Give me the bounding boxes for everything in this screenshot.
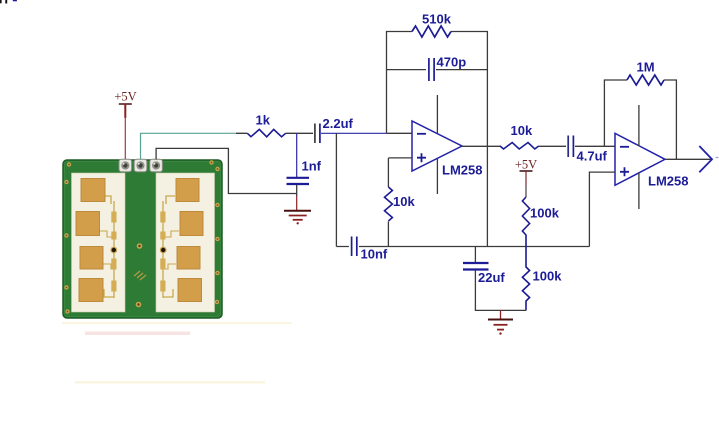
svg-text:+5V: +5V: [114, 90, 136, 104]
right antenna panel: [156, 173, 215, 312]
border vias: [64, 160, 219, 313]
via left panel: [110, 247, 117, 254]
pin 3: [150, 159, 163, 172]
antenna patch A3: [80, 247, 103, 270]
wire U1 + input: [388, 158, 412, 187]
svg-text:+5V: +5V: [515, 158, 537, 172]
svg-text:100k: 100k: [530, 206, 560, 221]
resistor R1 1k: [236, 113, 296, 137]
center strip marking: [134, 271, 146, 280]
resistor R5 1M: [627, 60, 664, 86]
svg-text:100k: 100k: [533, 269, 563, 284]
U2 V+ pin: [638, 105, 640, 146]
antenna patch A4: [79, 279, 103, 302]
antenna patch A6: [180, 212, 203, 236]
antenna patch A1: [81, 179, 105, 202]
antenna patch A7: [177, 247, 200, 270]
op-amp U2 LM258: [615, 105, 688, 209]
capacitor C3 470p: [429, 55, 466, 82]
+5V supply V2: [515, 158, 537, 198]
feedback loop wires U2: [604, 80, 676, 159]
svg-text:1nf: 1nf: [302, 159, 322, 174]
svg-text:4.7uf: 4.7uf: [577, 149, 608, 164]
via right panel: [160, 247, 167, 254]
svg-text:22uf: 22uf: [478, 270, 505, 285]
wire U1 output: [462, 145, 501, 147]
wire C1 to U1 inverting input: [321, 132, 387, 134]
capacitor C4 10nf: [352, 237, 388, 262]
right feed trace: [163, 196, 175, 298]
svg-text:510k: 510k: [422, 12, 452, 27]
capacitor C2 1nf: [287, 159, 322, 185]
wire U2 output: [665, 158, 711, 160]
op-amp U1 LM258: [412, 95, 482, 194]
svg-text:10k: 10k: [393, 194, 415, 209]
svg-text:10k: 10k: [511, 123, 533, 138]
resistor R4 10k: [500, 123, 566, 149]
ground G1: [284, 211, 311, 225]
antenna patch A8: [178, 279, 202, 302]
faint smudges below module: [62, 322, 292, 384]
wire R1/C1 node down to C2: [296, 133, 298, 177]
output arrow: [699, 146, 718, 172]
pin 2: [134, 159, 147, 172]
wire C5 to U2 inverting input: [575, 145, 615, 147]
antenna patch A2: [76, 212, 100, 236]
svg-text:LM258: LM258: [442, 163, 482, 178]
left feed trace: [103, 196, 114, 298]
wire U2 + input from bus: [589, 172, 615, 246]
wire rail to ground G2: [500, 310, 502, 319]
resistor R3 10k: [385, 187, 416, 247]
resistor R6 100k: [522, 197, 559, 247]
wire C2 to ground G1: [296, 185, 298, 196]
svg-text:LM258: LM258: [648, 174, 688, 189]
svg-text:1M: 1M: [637, 60, 655, 75]
ground G2: [488, 320, 513, 335]
wire bus to C6: [474, 247, 476, 264]
svg-text:1k: 1k: [256, 113, 271, 128]
wire +5V to pin1: [124, 117, 126, 159]
bus wire bottom: [336, 246, 589, 248]
U2 V- pin: [638, 173, 640, 209]
svg-text:470p: 470p: [437, 55, 467, 70]
svg-text:2.2uf: 2.2uf: [323, 116, 354, 131]
resistor R2 510k: [412, 12, 452, 38]
svg-text:10nf: 10nf: [361, 247, 388, 262]
capacitor C5 4.7uf: [568, 136, 607, 164]
feedback loop wires U1: [387, 32, 488, 247]
center strip vias: [137, 243, 143, 249]
left antenna panel: [72, 173, 126, 312]
capacitor C1 2.2uf: [315, 116, 354, 143]
wire pin3 to C2 bottom node: [156, 148, 297, 193]
wire pin2 to R1 (teal): [141, 133, 237, 159]
wire R1 to C1: [296, 132, 313, 134]
wire 470p branch: [387, 69, 488, 71]
sensor module PCB: [63, 159, 222, 318]
corner mark: [0, 0, 17, 4]
wire node A vertical (C1 right to bus): [335, 133, 337, 246]
pin 1: [119, 159, 132, 172]
capacitor C6 22uf: [463, 263, 505, 285]
wire C6 bottom rail: [475, 271, 526, 311]
U1 V+ pin: [436, 95, 438, 134]
resistor R7 100k: [522, 247, 562, 311]
U1 V- pin: [436, 159, 438, 195]
+5V supply V1: [114, 90, 136, 160]
antenna patch A5: [176, 179, 199, 202]
